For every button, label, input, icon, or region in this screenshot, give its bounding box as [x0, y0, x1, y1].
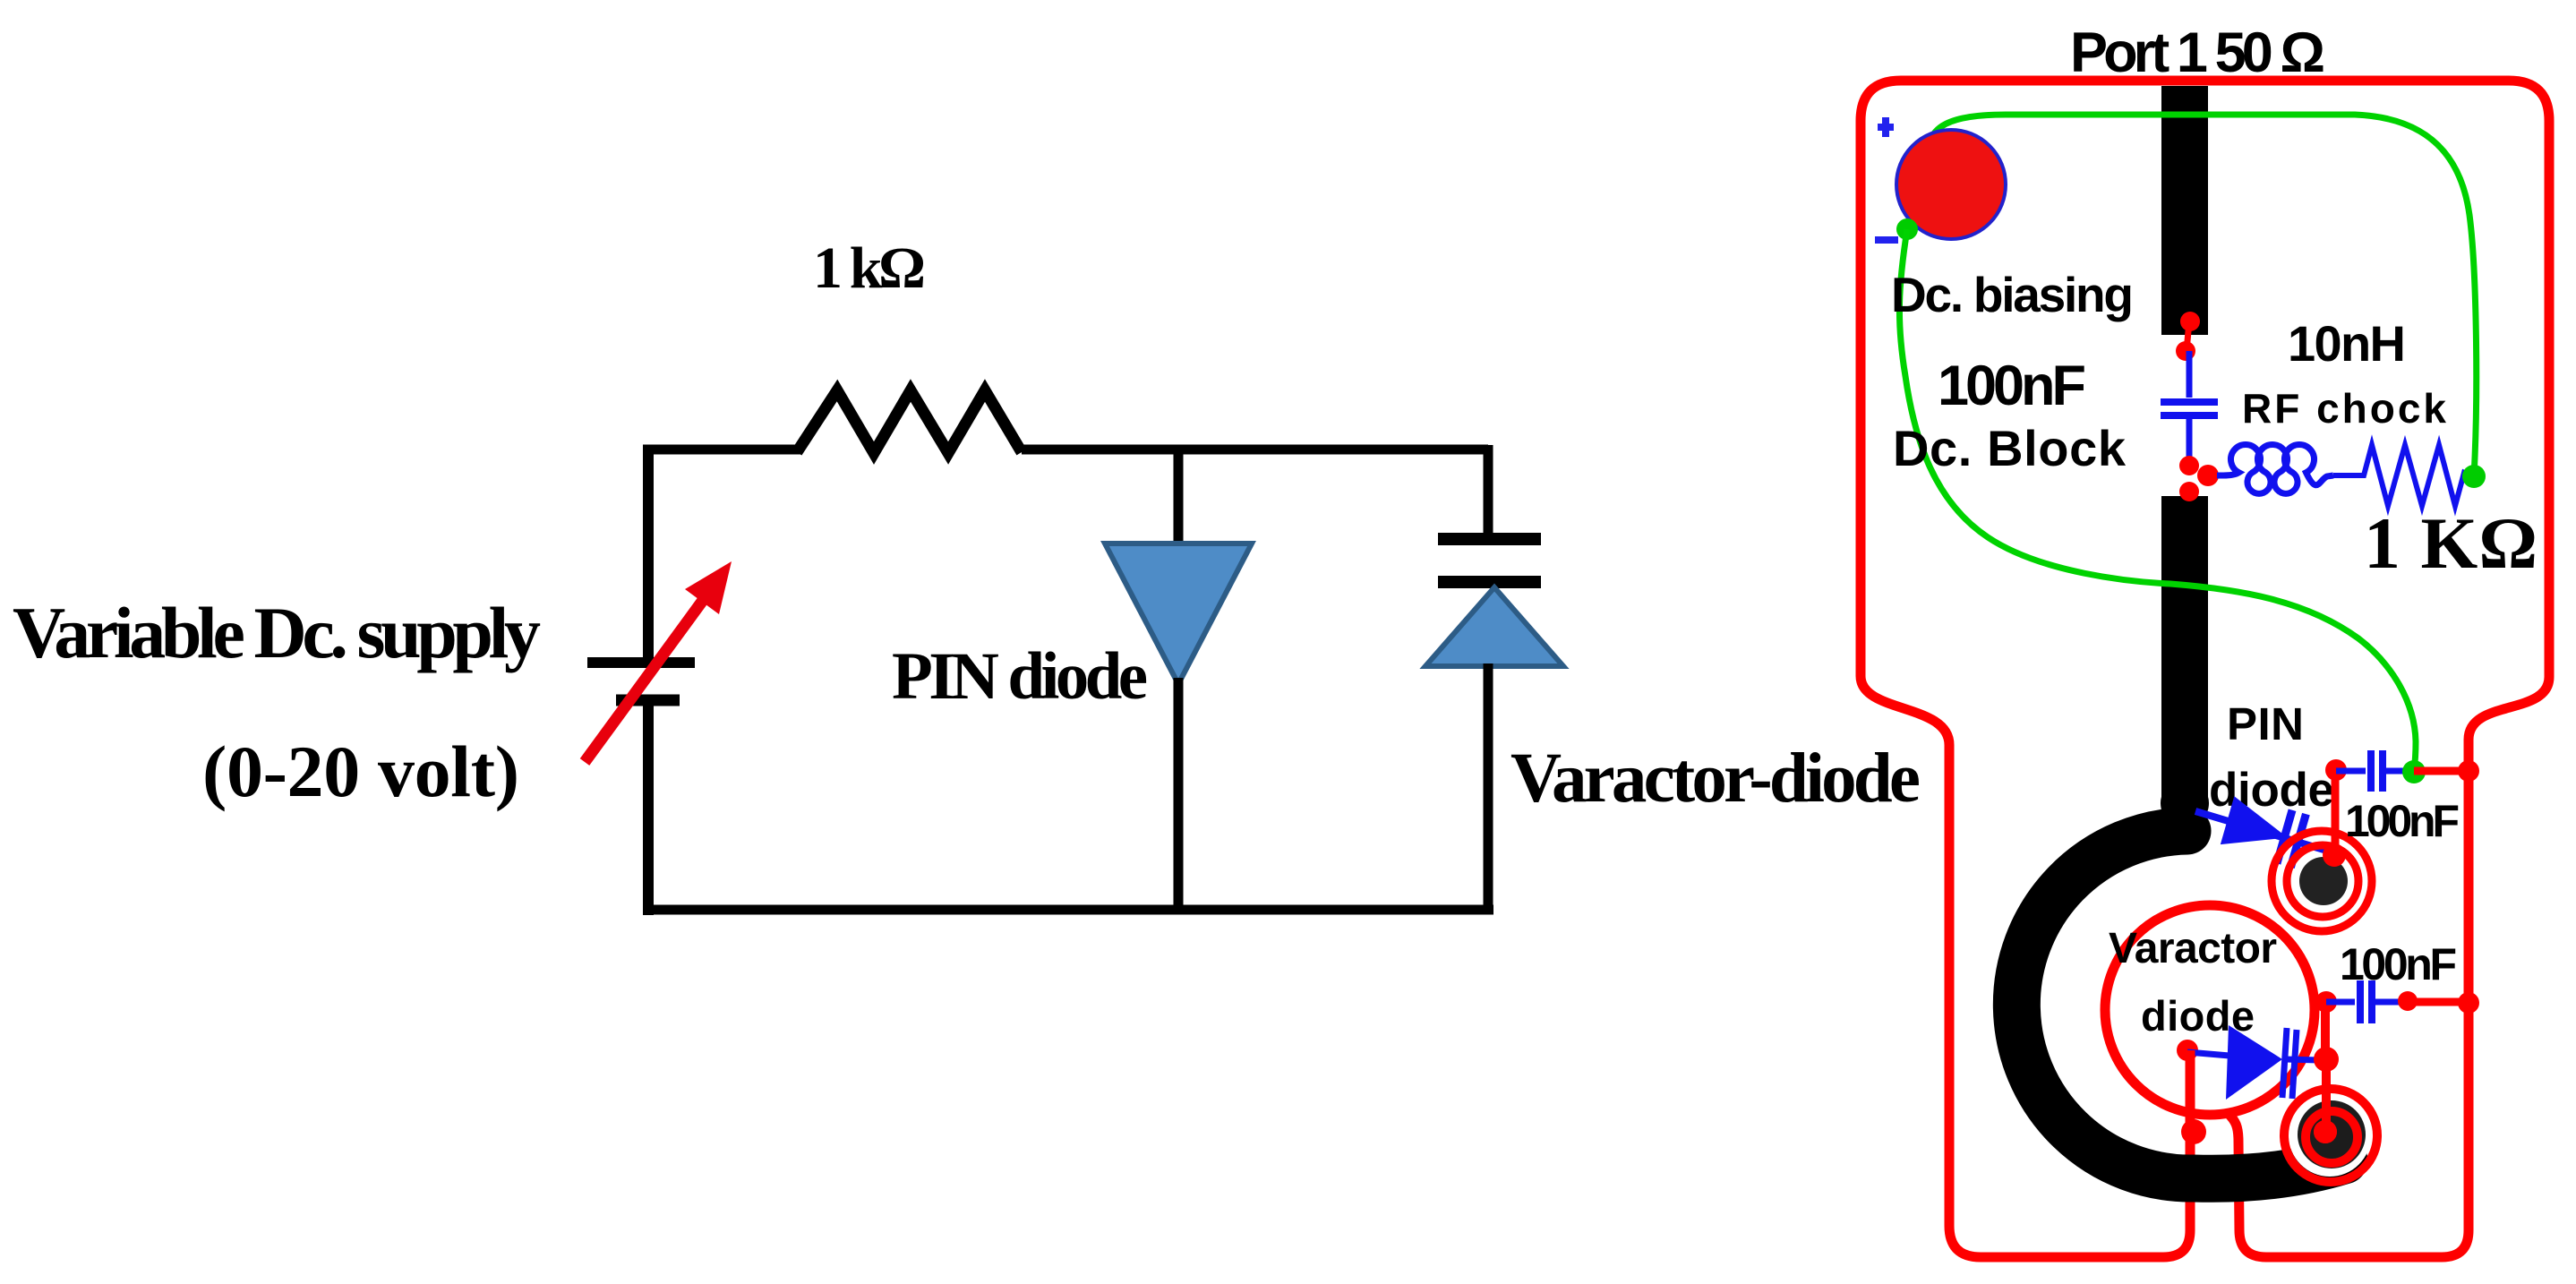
- green terminal dot on PIN cap node: [2402, 760, 2426, 783]
- svg-text:1 kΩ: 1 kΩ: [813, 235, 926, 301]
- junction dot varactor cathode: [2314, 1047, 2339, 1072]
- label Varactor-diode: [1511, 740, 1921, 817]
- label 1 kOhm: [813, 235, 926, 301]
- wire varactor branch upper: [1484, 445, 1493, 535]
- red trace varactor anode to bottom border: [2186, 1050, 2195, 1132]
- svg-text:100nF: 100nF: [2340, 939, 2457, 989]
- red trace cap node to right rail: [2414, 767, 2469, 775]
- label 10nH: [2288, 315, 2406, 372]
- wire left vertical upper: [643, 445, 654, 663]
- green wire from source plus to 1kOhm resistor right end: [1929, 115, 2476, 476]
- PIN diode pad inner ring and center: [2287, 845, 2358, 917]
- label plus terminal: [1878, 117, 1894, 137]
- wire top left segment: [643, 445, 801, 455]
- varactor pad white halo: [2289, 1094, 2371, 1177]
- varactor capacitor plate upper: [1438, 533, 1541, 545]
- label diode (pcb pin): [2209, 764, 2334, 817]
- varactor pad black disc: [2298, 1100, 2366, 1168]
- svg-text:Varactor-diode: Varactor-diode: [1511, 740, 1921, 817]
- junction dot right rail upper: [2458, 760, 2479, 782]
- label 100nF varactor cap: [2340, 939, 2457, 989]
- PIN diode symbol on pcb: [2187, 784, 2339, 877]
- green terminal dot right end of 1kOhm: [2462, 465, 2486, 488]
- wire varactor branch lower: [1484, 663, 1493, 910]
- label RF chock: [2242, 385, 2446, 432]
- label Dc. biasing: [1891, 267, 2134, 322]
- red trace cathode down to lower pad: [2314, 1059, 2337, 1143]
- wire top right segment: [1022, 445, 1488, 455]
- svg-text:Varactor: Varactor: [2109, 925, 2277, 972]
- svg-text:Variable Dc. supply: Variable Dc. supply: [13, 592, 541, 673]
- junction dots below DC block capacitor: [2179, 456, 2219, 501]
- svg-text:PIN: PIN: [2227, 698, 2304, 749]
- junction dot right rail lower: [2458, 992, 2479, 1014]
- label Dc. Block: [1893, 420, 2127, 476]
- capacitor 100nF varactor symbol: [2326, 980, 2408, 1023]
- inductor 10nH RF choke coil: [2217, 445, 2333, 494]
- label Variable Dc. supply: [13, 592, 541, 673]
- svg-text:10nH: 10nH: [2288, 315, 2406, 372]
- varactor diode symbol on pcb: [2187, 1025, 2319, 1100]
- capacitor 100nF DC block symbol: [2161, 351, 2218, 466]
- svg-text:100nF: 100nF: [1938, 355, 2086, 417]
- microstrip stub black arc: [2016, 831, 2344, 1178]
- green wire from source minus to PIN 100nF node: [1899, 229, 2416, 772]
- red trace cathode up to cap node: [2321, 1002, 2330, 1059]
- label Varactor (pcb): [2109, 925, 2277, 972]
- label PIN diode: [892, 639, 1148, 714]
- label 100nF pin cap: [2345, 796, 2460, 846]
- label diode (pcb varactor): [2141, 992, 2255, 1040]
- DC source circle: [1896, 130, 2006, 239]
- junction dot bottom of upper bar: [2180, 312, 2200, 331]
- wire left vertical lower: [643, 700, 654, 915]
- junction dot anode trace: [2181, 1119, 2206, 1144]
- red trace varactor cap to right rail: [2408, 998, 2469, 1006]
- varactor circle outline: [2105, 905, 2315, 1115]
- varactor pad red ring: [2306, 1111, 2358, 1163]
- varactor anode dot: [2177, 1040, 2198, 1061]
- PIN diode pad outer ring: [2272, 831, 2372, 931]
- red link bar to capacitor: [2187, 321, 2189, 351]
- svg-text:Dc. biasing: Dc. biasing: [1891, 267, 2134, 322]
- microstrip trace lower black bar: [2161, 496, 2209, 827]
- wire PIN branch upper: [1174, 449, 1184, 548]
- varactor capacitor plate lower: [1438, 576, 1541, 588]
- varactor pad outer ring: [2284, 1089, 2377, 1182]
- PCB board outline right part: [1901, 81, 2549, 1257]
- svg-text:Port 1 50 Ω: Port 1 50 Ω: [2070, 21, 2325, 84]
- svg-text:1 KΩ: 1 KΩ: [2364, 502, 2537, 584]
- varactor diode triangle: [1425, 587, 1563, 666]
- red trace pad to capacitor node: [2332, 771, 2340, 855]
- wire bottom: [643, 905, 1493, 915]
- junction dot top of DC block capacitor: [2176, 341, 2195, 361]
- microstrip trace upper black bar: [2161, 86, 2208, 335]
- label (0-20 volt): [202, 731, 519, 812]
- svg-text:100nF: 100nF: [2345, 796, 2460, 846]
- label minus terminal: [1875, 236, 1898, 244]
- svg-text:PIN diode: PIN diode: [892, 639, 1148, 714]
- svg-text:(0-20 volt): (0-20 volt): [202, 731, 519, 812]
- PCB board outline left part: [1861, 81, 2190, 1257]
- label 100nF dc block value: [1938, 355, 2086, 417]
- junction dot varactor cap right: [2398, 991, 2418, 1011]
- battery short plate: [616, 695, 680, 706]
- label Port 1 50 Ohm: [2070, 21, 2325, 84]
- wire PIN branch lower: [1174, 678, 1184, 910]
- junction dot capacitor left: [2325, 759, 2347, 781]
- battery long plate: [587, 657, 695, 668]
- label PIN (pcb): [2227, 698, 2304, 749]
- resistor R 1 kOhm zigzag: [797, 390, 1022, 453]
- svg-text:Dc. Block: Dc. Block: [1893, 420, 2127, 476]
- red arrow variable supply: [585, 561, 732, 762]
- capacitor 100nF PIN symbol: [2336, 750, 2414, 792]
- PIN diode triangle: [1105, 544, 1252, 684]
- junction dot pad top: [2323, 843, 2346, 867]
- resistor 1 KOhm blue zigzag: [2333, 445, 2469, 506]
- junction dot varactor cap left: [2315, 991, 2337, 1013]
- svg-text:diode: diode: [2209, 764, 2334, 817]
- label 1 KOhm: [2364, 502, 2537, 584]
- green terminal dot on source minus: [1896, 218, 1918, 240]
